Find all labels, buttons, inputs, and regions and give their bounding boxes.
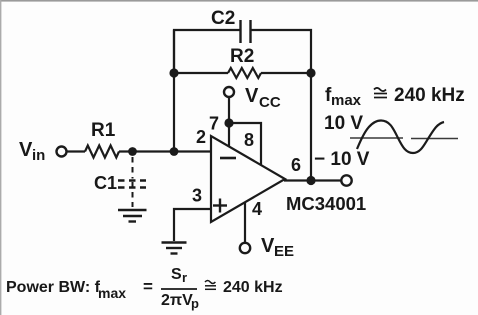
wire pin 7 to VCC xyxy=(228,98,230,148)
wire pin 8 loop xyxy=(229,123,261,165)
wire output xyxy=(284,179,341,181)
svg-text:R2: R2 xyxy=(230,46,254,67)
junction R2 left xyxy=(169,68,178,77)
svg-text:V: V xyxy=(245,85,259,107)
svg-text:R1: R1 xyxy=(91,120,116,141)
svg-text:C1: C1 xyxy=(94,173,117,193)
svg-text:max: max xyxy=(98,285,126,301)
node Vin label xyxy=(19,139,45,164)
label MC34001 xyxy=(286,193,366,214)
ground pin 3 xyxy=(162,243,187,254)
label 10 V xyxy=(324,113,363,134)
junction output node xyxy=(306,176,315,185)
svg-text:S: S xyxy=(171,266,182,283)
terminal VEE xyxy=(240,243,250,253)
svg-text:8: 8 xyxy=(244,130,254,150)
svg-text:240 kHz: 240 kHz xyxy=(394,85,465,106)
wire R1 to op-amp pin 2 xyxy=(119,150,211,152)
label fmax = 240 kHz xyxy=(325,85,465,109)
waveform axis xyxy=(350,137,458,140)
svg-text:7: 7 xyxy=(209,114,219,134)
junction node feedback/input xyxy=(170,147,179,156)
label -10 V xyxy=(314,149,370,170)
capacitor C2 xyxy=(211,8,251,43)
junction R2 right xyxy=(306,68,315,77)
pin 4 label xyxy=(252,199,262,219)
junction node C1 xyxy=(128,147,137,156)
svg-text:p: p xyxy=(191,296,199,311)
wire C2 loop left xyxy=(174,30,240,73)
wire input lead xyxy=(67,150,85,152)
wire C2 loop right xyxy=(251,30,311,73)
svg-text:6: 6 xyxy=(291,155,301,175)
wire pin 4 to VEE xyxy=(244,202,246,242)
svg-text:max: max xyxy=(331,92,362,109)
wire pin 3 to ground xyxy=(174,209,211,241)
label VEE xyxy=(261,235,294,260)
svg-text:=: = xyxy=(143,277,153,296)
svg-text:2πV: 2πV xyxy=(161,292,193,309)
pin 3 label xyxy=(192,186,202,206)
svg-text:V: V xyxy=(19,139,33,161)
terminal input xyxy=(57,147,67,157)
op-amp U1 MC34001 xyxy=(211,136,285,222)
svg-text:Power BW: f: Power BW: f xyxy=(6,279,101,296)
label VCC xyxy=(245,85,281,111)
wire feedback left vertical xyxy=(173,30,175,152)
svg-text:3: 3 xyxy=(192,186,202,206)
pin 6 label xyxy=(291,155,301,175)
formula Power BW xyxy=(6,266,283,311)
terminal output xyxy=(341,175,351,185)
svg-text:in: in xyxy=(32,147,45,164)
waveform output sine xyxy=(357,121,444,154)
svg-text:− 10 V: − 10 V xyxy=(314,149,370,170)
svg-text:r: r xyxy=(182,270,187,285)
svg-text:EE: EE xyxy=(274,243,294,260)
svg-text:V: V xyxy=(261,235,275,257)
pin 8 label xyxy=(244,130,254,150)
svg-text:4: 4 xyxy=(252,199,262,219)
junction pins 7-8 xyxy=(224,118,233,127)
svg-text:2: 2 xyxy=(196,127,206,147)
wire feedback right vertical xyxy=(310,73,312,181)
terminal VCC xyxy=(224,87,234,97)
svg-text:240 kHz: 240 kHz xyxy=(223,279,283,296)
svg-text:CC: CC xyxy=(259,94,281,111)
svg-text:10 V: 10 V xyxy=(324,113,363,134)
ground under C1 xyxy=(118,210,147,222)
capacitor C1 (stray, dashed) xyxy=(94,157,146,207)
resistor R2 xyxy=(174,46,311,78)
svg-text:C2: C2 xyxy=(211,8,235,29)
resistor R1 xyxy=(85,120,119,158)
svg-text:MC34001: MC34001 xyxy=(286,193,366,214)
pin 2 label xyxy=(196,127,206,147)
pin 7 label xyxy=(209,114,219,134)
